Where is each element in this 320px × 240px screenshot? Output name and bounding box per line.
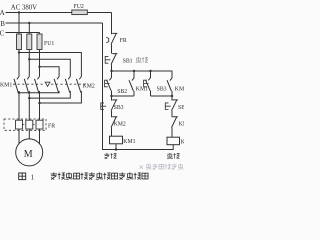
contactor KM1 main contact pole 1 <box>14 77 19 94</box>
contactor KM2 main contact pole 2 <box>65 77 70 93</box>
interlock button SB2 NC (right branch) <box>165 100 178 111</box>
FR heater element 3 <box>36 120 43 129</box>
node: split left <box>110 70 112 72</box>
node: split KM1 aux <box>133 70 135 72</box>
wire: SB3 NC to KM2 NC <box>111 111 113 117</box>
FR heater link dashes <box>23 124 37 126</box>
wire: tap phase A to KM2 right pole <box>19 53 81 77</box>
wire: phase line B <box>6 22 103 24</box>
svg-text:KM2: KM2 <box>175 87 184 93</box>
wire: SB1 down through split <box>111 65 113 78</box>
wire: KM1 pole outputs down <box>19 91 40 120</box>
coil KM1 <box>110 136 123 144</box>
interlock contact KM2 NC (left branch) <box>111 117 117 128</box>
svg-text:KM2: KM2 <box>181 139 184 145</box>
fuse FU1 element 2 <box>27 34 32 50</box>
wire: KM2 NC to KM1 coil <box>111 128 113 137</box>
wire: tap phase B to KM2 middle pole <box>29 59 70 76</box>
caption 异步电动机正反转控制电路图 <box>51 172 148 179</box>
wire: FR to SB1 <box>111 44 113 53</box>
FR actuator bracket <box>106 37 109 43</box>
FR NC contact (control) <box>106 33 117 44</box>
wire: SB2 bottom to SB3 NC <box>111 91 113 101</box>
node: split SB3 <box>149 70 151 72</box>
wire: KM2 pole1 output to motor line 1 <box>19 91 59 93</box>
svg-text:SB3: SB3 <box>114 105 124 111</box>
wire: left pair join bar <box>112 95 135 97</box>
svg-text:KM1: KM1 <box>123 139 135 145</box>
svg-text:KM2: KM2 <box>83 84 95 90</box>
svg-text:FR: FR <box>48 124 55 130</box>
svg-text:AC 380V: AC 380V <box>11 5 37 12</box>
FR heater element 1 <box>16 120 23 129</box>
wire: KM1 coil to return rail <box>115 144 117 150</box>
wire: phase line A <box>6 12 112 14</box>
svg-text:KM1: KM1 <box>136 87 148 93</box>
node: join 3 <box>38 102 40 104</box>
node: line A tap <box>18 11 20 13</box>
wire: phase line C <box>6 32 40 34</box>
node: join 1 <box>18 92 20 94</box>
fuse FU2 <box>72 10 88 15</box>
contactor KM2 main contact pole 3 <box>76 77 81 93</box>
svg-text:1: 1 <box>31 173 35 181</box>
wire: phase C vertical <box>39 33 41 77</box>
auxiliary contact KM1 (hold-in) <box>129 71 134 96</box>
svg-text:KM1: KM1 <box>179 122 184 128</box>
wire: right pair join bar <box>151 95 173 97</box>
caption 图1 <box>19 173 26 180</box>
wire: KM1 NC to KM2 coil <box>171 128 173 138</box>
svg-text:FR: FR <box>120 38 127 44</box>
svg-text:M: M <box>24 149 33 160</box>
SB3 actuator E <box>144 80 149 87</box>
label 停车 (gray) <box>136 57 148 63</box>
contactor KM1 main contact pole 3 <box>35 77 40 94</box>
motor M circle <box>16 139 43 166</box>
svg-text:C: C <box>0 29 5 37</box>
start button SB3 (NO) <box>144 71 151 96</box>
watermark 电子工程专辑 (gray) <box>140 164 184 170</box>
SB3 NC actuator E <box>101 103 106 110</box>
node: tap C <box>38 66 40 68</box>
svg-text:FU2: FU2 <box>74 4 84 10</box>
svg-text:B: B <box>0 20 5 28</box>
label 正转 (forward) <box>104 153 116 159</box>
label 反转 (reverse) <box>167 153 180 159</box>
svg-text:A: A <box>0 9 5 17</box>
FR heater element 2 <box>26 120 33 129</box>
wire: SB2 NC to KM1 NC <box>171 111 173 117</box>
fuse FU1 element 1 <box>17 34 22 50</box>
contactor KM1 main contact pole 2 <box>24 77 29 94</box>
stop button SB1 (NC) <box>105 53 117 64</box>
wire: phase B vertical <box>28 23 30 77</box>
wire: KM2 pole3 output to motor line 3 <box>40 91 82 103</box>
wire: phase A vertical <box>18 13 20 77</box>
node: coil return <box>115 148 117 150</box>
coil KM2 <box>167 137 180 145</box>
node: left join <box>110 95 112 97</box>
wire: KM2 pole2 output to motor line 2 <box>29 91 70 98</box>
interlock button SB3 NC (left branch) <box>101 100 118 111</box>
svg-text:FU1: FU1 <box>44 41 54 47</box>
svg-text:KM2: KM2 <box>114 122 126 128</box>
mechanical interlock dashed linkage <box>13 83 87 85</box>
svg-text:KM1: KM1 <box>0 83 12 89</box>
node: join 2 <box>28 97 30 99</box>
svg-text:SB2: SB2 <box>178 105 184 111</box>
SB2 actuator E <box>105 80 110 87</box>
SB1 button actuator E <box>105 56 110 63</box>
svg-text:SB2: SB2 <box>117 89 127 95</box>
node: tap A <box>18 51 20 53</box>
control feed vertical from line A <box>111 13 113 35</box>
wire: neutral return rail from line B <box>103 23 174 150</box>
thermal overload relay FR dashed enclosure <box>4 119 46 130</box>
wire: right branch join to SB2 NC <box>171 96 173 101</box>
node: line B tap <box>28 22 30 24</box>
interlock contact KM1 NC (right branch) <box>172 117 178 128</box>
auxiliary contact KM2 (hold-in) <box>167 78 172 96</box>
node: right join <box>171 95 173 97</box>
start button SB2 (NO) <box>105 78 112 91</box>
wire: top split bar <box>112 71 173 78</box>
wire: tap phase C to KM2 left pole <box>40 67 60 77</box>
SB2 NC actuator E <box>165 103 170 110</box>
svg-text:SB3: SB3 <box>157 87 167 93</box>
node: tap B <box>28 58 30 60</box>
interlock triangle <box>45 82 50 86</box>
wire: motor leads <box>19 129 40 144</box>
svg-text:SB1: SB1 <box>123 59 133 65</box>
fuse FU1 element 3 <box>37 34 42 50</box>
contactor KM2 main contact pole 1 <box>54 77 59 93</box>
